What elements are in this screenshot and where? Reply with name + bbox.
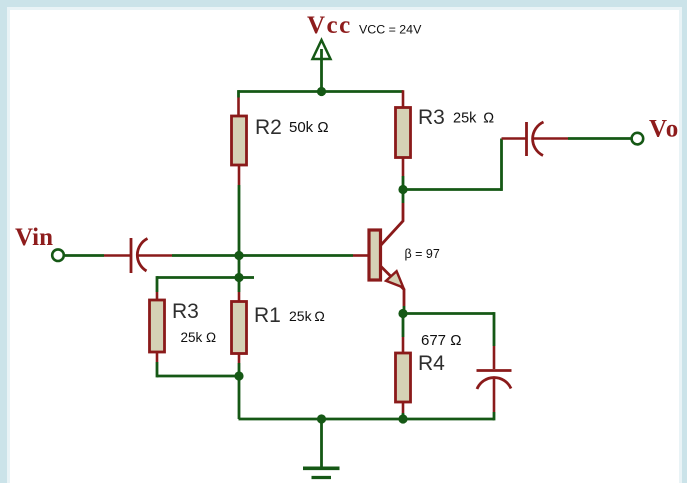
svg-text:677 Ω: 677 Ω — [421, 332, 461, 349]
wire stub right of node B2 — [239, 276, 254, 279]
junction base node — [234, 251, 243, 260]
wire C1 to base node — [138, 254, 173, 257]
svg-text:Vcc: Vcc — [307, 12, 352, 39]
terminal Vo — [632, 133, 644, 145]
wire bottom rail — [239, 418, 495, 421]
terminal Vin — [52, 249, 64, 261]
svg-text:R2: R2 — [255, 116, 282, 139]
svg-text:R1: R1 — [254, 304, 281, 327]
wire emitter node to bypass branch — [403, 312, 494, 315]
svg-text:R3: R3 — [418, 106, 445, 129]
svg-text:R3: R3 — [172, 300, 199, 323]
wire C3 bottom lead — [493, 378, 496, 412]
wire base lead — [239, 254, 353, 257]
svg-text:25k Ω: 25k Ω — [453, 111, 494, 127]
svg-text:25k Ω: 25k Ω — [181, 330, 217, 345]
resistor R1 — [232, 302, 247, 354]
junction bias bottom — [234, 371, 243, 380]
junction collector node — [398, 185, 407, 194]
resistor R4 — [396, 353, 411, 402]
svg-text:R4: R4 — [418, 352, 445, 375]
wire ground stub — [320, 419, 323, 467]
wire top rail — [239, 90, 404, 93]
wire R3c bottom lead — [402, 158, 405, 177]
capacitor C3 bypass — [477, 369, 512, 372]
ground — [303, 466, 340, 470]
wire R4 top lead — [402, 314, 405, 338]
junction vcc rail — [317, 87, 326, 96]
junction R4 bottom — [398, 414, 407, 423]
wire Vin run — [65, 254, 104, 257]
wire vcc stub — [320, 49, 323, 92]
wire R3 bias bottom lead — [156, 352, 159, 362]
svg-text:Vo: Vo — [649, 116, 679, 143]
transistor Q1 emitter diagonal — [381, 266, 405, 306]
wire R2 bottom lead — [238, 165, 241, 185]
wire C2 to Vo — [534, 137, 568, 140]
capacitor C2 output — [525, 122, 528, 156]
svg-text:VCC = 24V: VCC = 24V — [359, 23, 422, 37]
wire R2 top lead — [237, 90, 240, 97]
wire R1 top lead — [238, 292, 241, 302]
resistor R3 bias — [150, 300, 165, 352]
svg-text:β = 97: β = 97 — [405, 247, 440, 261]
transistor Q1 emitter arrow — [386, 271, 403, 287]
wire collector out — [403, 188, 502, 191]
junction ground node — [317, 414, 326, 423]
wire to left branch — [157, 276, 239, 279]
transistor Q1 base bar — [369, 230, 381, 280]
junction bias node — [234, 273, 243, 282]
wire R3c top lead — [402, 90, 405, 107]
wire R4 bottom lead — [402, 402, 405, 413]
power Vcc arrow — [313, 40, 331, 59]
resistor R3 collector — [396, 108, 411, 158]
svg-text:Vin: Vin — [15, 224, 53, 251]
svg-text:50k Ω: 50k Ω — [289, 119, 329, 136]
wire collector lead — [402, 190, 405, 204]
capacitor C1 input — [130, 238, 133, 273]
wire R1 bottom lead — [238, 354, 241, 364]
junction emitter node — [398, 309, 407, 318]
svg-text:25k Ω: 25k Ω — [289, 308, 325, 324]
resistor R2 — [232, 116, 247, 165]
